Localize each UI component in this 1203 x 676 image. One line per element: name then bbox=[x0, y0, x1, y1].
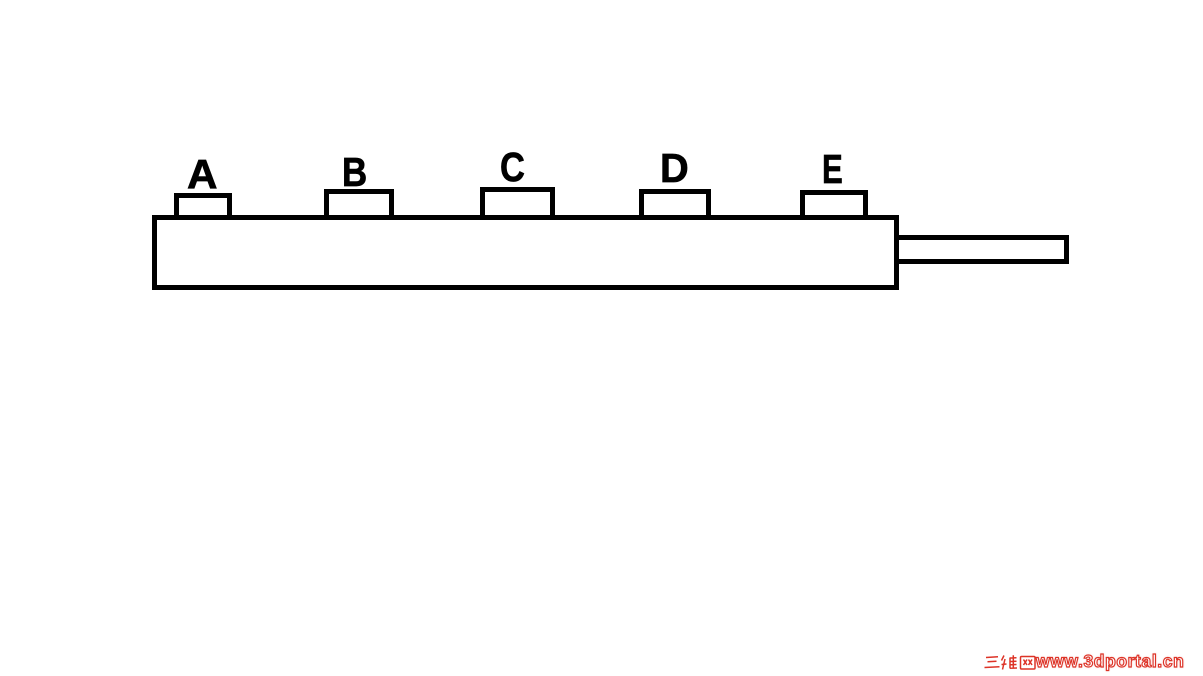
pad E bbox=[800, 190, 868, 220]
label A bbox=[187, 154, 217, 195]
label D bbox=[660, 148, 689, 189]
label C bbox=[500, 147, 525, 188]
watermark bbox=[0, 0, 1, 1]
label E bbox=[822, 149, 843, 190]
watermark CJK 三维网 bbox=[983, 654, 1036, 672]
pad C bbox=[480, 187, 555, 220]
pad A bbox=[174, 193, 232, 220]
label B bbox=[342, 152, 367, 193]
watermark text bbox=[1036, 653, 1184, 670]
pad D bbox=[639, 189, 711, 220]
pad B bbox=[324, 189, 394, 220]
main bar bbox=[152, 215, 899, 290]
handle bbox=[894, 235, 1069, 264]
